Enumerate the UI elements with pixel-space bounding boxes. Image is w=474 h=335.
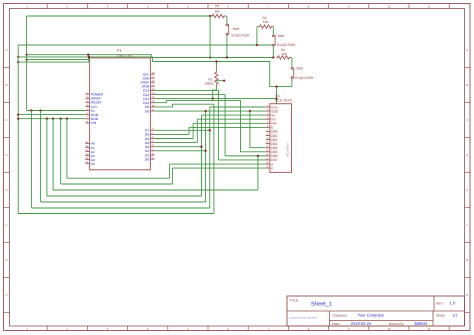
svg-text:EVQ22705R: EVQ22705R bbox=[295, 76, 314, 80]
svg-text:A: A bbox=[6, 48, 8, 52]
svg-text:10k: 10k bbox=[263, 20, 269, 24]
svg-text:G: G bbox=[5, 258, 7, 262]
svg-text:16: 16 bbox=[152, 80, 155, 83]
svg-text:11: 11 bbox=[428, 327, 431, 331]
svg-text:7: 7 bbox=[268, 5, 270, 9]
svg-text:10k: 10k bbox=[281, 52, 287, 56]
svg-text:B: B bbox=[466, 83, 468, 87]
svg-text:D8: D8 bbox=[145, 109, 149, 113]
svg-text:B: B bbox=[6, 83, 8, 87]
svg-text:LCD 16X2: LCD 16X2 bbox=[275, 99, 292, 103]
svg-text:R4: R4 bbox=[215, 4, 219, 8]
svg-text:G: G bbox=[466, 258, 468, 262]
svg-text:6: 6 bbox=[227, 5, 229, 9]
svg-text:D0: D0 bbox=[145, 157, 149, 161]
svg-text:C: C bbox=[466, 118, 468, 122]
svg-text:8: 8 bbox=[308, 5, 310, 9]
svg-text:Date:: Date: bbox=[332, 322, 340, 326]
svg-text:Drawn By:: Drawn By: bbox=[389, 322, 405, 326]
svg-text:VIN: VIN bbox=[91, 121, 97, 125]
svg-text:Sheet:: Sheet: bbox=[436, 314, 445, 318]
svg-text:1: 1 bbox=[26, 5, 28, 9]
svg-text:Sheet_1: Sheet_1 bbox=[311, 301, 332, 308]
svg-text:A: A bbox=[466, 48, 468, 52]
svg-text:F: F bbox=[466, 223, 468, 227]
svg-text:P1: P1 bbox=[117, 49, 122, 53]
svg-text:10: 10 bbox=[387, 327, 391, 331]
svg-text:EasyEDA V5.9.25, 2019-05-24: EasyEDA V5.9.25, 2019-05-24 bbox=[289, 317, 318, 320]
svg-text:H: H bbox=[5, 293, 7, 297]
svg-text:WC1602A: WC1602A bbox=[286, 143, 290, 157]
svg-text:SW2: SW2 bbox=[296, 67, 303, 71]
svg-text:4: 4 bbox=[147, 5, 149, 9]
svg-text:C: C bbox=[5, 118, 7, 122]
svg-text:REV:: REV: bbox=[436, 302, 443, 306]
svg-text:EVQ22705R: EVQ22705R bbox=[232, 33, 251, 37]
svg-text:TITLE:: TITLE: bbox=[290, 299, 300, 303]
svg-text:1.0: 1.0 bbox=[450, 301, 456, 306]
svg-text:9: 9 bbox=[348, 5, 350, 9]
svg-text:10: 10 bbox=[387, 5, 391, 9]
svg-text:E: E bbox=[466, 188, 468, 192]
svg-text:3: 3 bbox=[107, 5, 109, 9]
svg-text:EVQ22705R: EVQ22705R bbox=[277, 43, 296, 47]
svg-text:SW3: SW3 bbox=[233, 27, 240, 31]
svg-text:2019-05-24: 2019-05-24 bbox=[351, 321, 372, 326]
svg-text:2: 2 bbox=[67, 5, 69, 9]
svg-text:10k: 10k bbox=[214, 10, 220, 14]
svg-text:H: H bbox=[466, 293, 468, 297]
svg-text:D: D bbox=[466, 153, 468, 157]
svg-text:5: 5 bbox=[187, 5, 189, 9]
svg-text:18: 18 bbox=[152, 71, 155, 74]
svg-text:A5: A5 bbox=[91, 162, 95, 166]
svg-text:17: 17 bbox=[152, 76, 155, 79]
svg-text:11: 11 bbox=[428, 5, 431, 9]
svg-text:D: D bbox=[5, 153, 7, 157]
svg-text:Your Company: Your Company bbox=[358, 313, 384, 318]
svg-text:1/1: 1/1 bbox=[452, 314, 457, 318]
svg-text:15: 15 bbox=[152, 84, 155, 87]
svg-text:100kΩ: 100kΩ bbox=[204, 82, 214, 86]
svg-text:K: K bbox=[271, 166, 274, 170]
svg-text:E: E bbox=[6, 188, 8, 192]
svg-text:Company:: Company: bbox=[332, 314, 348, 318]
svg-text:F: F bbox=[6, 223, 8, 227]
svg-text:388534: 388534 bbox=[414, 321, 428, 326]
svg-text:SW1: SW1 bbox=[278, 34, 285, 38]
